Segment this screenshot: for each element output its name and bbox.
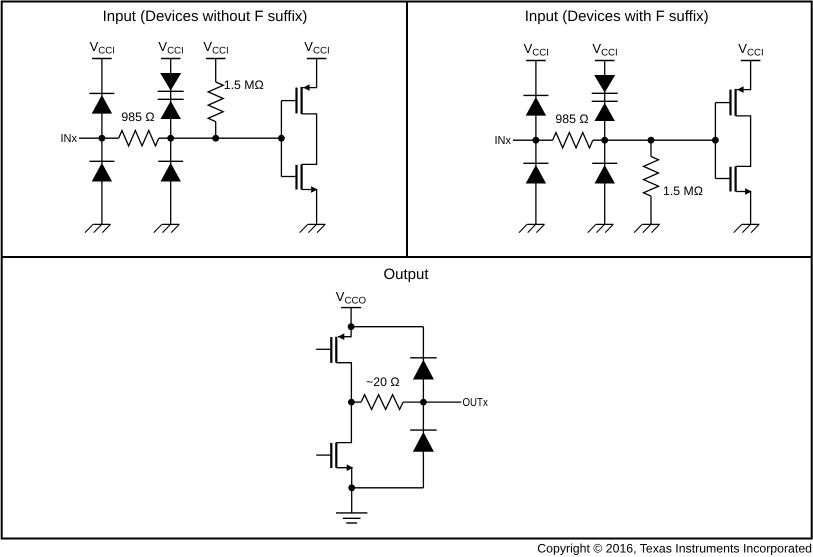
node F junction dot (driver node)	[348, 399, 355, 406]
transistor Q6 NMOS (output driver)	[331, 443, 353, 471]
wire node B to gate node	[159, 137, 282, 139]
panel divider vertical between input boxes	[406, 2, 408, 258]
power VCCI label 3	[203, 39, 228, 59]
svg-text:~20 Ω: ~20 Ω	[366, 375, 399, 389]
resistor ~20 ohm output series	[361, 395, 403, 410]
wire VCCI to PMOS source	[303, 59, 317, 88]
node B2 junction dot	[601, 137, 608, 144]
power VCCI label 3 panel 2	[738, 41, 763, 61]
ground symbol column 1	[85, 224, 111, 232]
wire gate stub to PMOS panel 2	[715, 102, 730, 104]
wire pulldown resistor to ground	[650, 196, 652, 224]
wire node G to OUTx pin	[423, 401, 461, 403]
wire PMOS drain to NMOS drain	[302, 114, 317, 164]
wire NMOS source to ground panel 2	[736, 192, 751, 225]
ground symbol transistor leg panel 1	[300, 224, 326, 232]
wire PMOS drain to node F	[336, 363, 351, 402]
node C junction dot	[212, 135, 219, 142]
wire gate bus vertical	[280, 101, 282, 177]
ground symbol panel 2 column 2	[588, 224, 614, 232]
ground symbol pull-down resistor	[634, 224, 660, 232]
node E junction dot (VCCO node)	[348, 323, 355, 330]
node G junction dot (OUTx node)	[420, 399, 427, 406]
transistor Q4 NMOS (input buffer panel 2)	[731, 166, 752, 194]
wire node H to clamp diode column	[352, 487, 424, 489]
wire gate stub to NMOS	[281, 176, 296, 178]
panel divider horizontal above Output box	[2, 256, 812, 258]
ground symbol transistor leg panel 2	[734, 224, 760, 232]
wire gate stub NMOS output	[316, 454, 331, 456]
power VCCO label	[336, 289, 367, 308]
wire VCCI rail down to ground (panel 2 column 1)	[535, 61, 537, 225]
ground symbol column 2	[154, 224, 180, 232]
node A2 junction dot	[533, 137, 540, 144]
resistor 1.5 Mohm pull-down	[644, 157, 659, 197]
wire PMOS drain to NMOS drain panel 2	[736, 116, 751, 166]
wire NMOS source to ground	[302, 190, 317, 225]
diode D5 (ground to node B, cathode up)	[158, 161, 183, 181]
diode D7 (ground to input node, cathode up)	[523, 163, 548, 183]
wire node B2 to gate node	[593, 139, 716, 141]
diode D4 (zener pair bottom: cathode-up diode)	[158, 99, 184, 119]
wire pullup resistor to node C	[215, 122, 217, 139]
wire VCCI rail down to ground (panel 2 column 2)	[604, 61, 606, 225]
svg-text:1.5 MΩ: 1.5 MΩ	[224, 78, 264, 92]
svg-text:Input (Devices with F suffix): Input (Devices with F suffix)	[525, 8, 709, 25]
wire NMOS source to node H	[336, 468, 351, 488]
node B junction dot	[167, 135, 174, 142]
diode D3 (zener pair top: cathode-down diode)	[158, 73, 184, 91]
wire INx to node A2	[513, 139, 553, 141]
resistor 985 ohm (series input resistor)	[119, 131, 159, 146]
wire resistor to node G	[403, 401, 423, 403]
diode D2 (ground to input node, cathode up)	[89, 161, 114, 181]
node A junction dot	[99, 135, 106, 142]
transistor Q1 PMOS (input buffer)	[297, 84, 310, 114]
wire VCCI rail 2 down to ground (column 2)	[170, 59, 172, 225]
wire gate stub to NMOS panel 2	[715, 178, 730, 180]
svg-text:1.5 MΩ: 1.5 MΩ	[663, 184, 703, 198]
diode D1 (VCCI to input node, cathode up)	[89, 93, 114, 113]
power VCCI label 2 panel 2	[592, 41, 617, 61]
diode D8 (zener pair top: cathode-down diode)	[592, 75, 618, 93]
svg-text:Copyright © 2016, Texas Instru: Copyright © 2016, Texas Instruments Inco…	[537, 542, 812, 556]
wire clamp diode column vertical	[422, 327, 424, 488]
resistor 985 ohm (series input resistor, panel 2)	[553, 133, 593, 148]
power VCCI label 2	[158, 39, 183, 59]
wire node E to clamp diode column	[351, 326, 423, 328]
node D junction dot (gate node)	[278, 135, 285, 142]
wire node F to output resistor	[351, 401, 361, 403]
svg-text:985 Ω: 985 Ω	[121, 110, 154, 124]
svg-text:OUTx: OUTx	[463, 397, 489, 409]
power VCCI label 1 panel 2	[524, 41, 549, 61]
diode D9 (zener pair bottom: cathode-up diode)	[592, 101, 618, 121]
node D2 junction dot (gate node panel 2)	[712, 137, 719, 144]
wire VCCO to node E	[350, 308, 352, 327]
node H junction dot (ground node)	[348, 484, 355, 491]
power VCCI label 4	[304, 39, 329, 59]
transistor Q2 NMOS (input buffer)	[297, 164, 318, 192]
diode D6 (VCCI to input node, cathode up)	[523, 95, 548, 115]
wire INx to node A	[79, 137, 119, 139]
node C2 junction dot (pull-down tap)	[648, 137, 655, 144]
ground symbol panel 2 column 1	[519, 224, 545, 232]
wire node C2 down to pulldown resistor	[650, 140, 652, 156]
wire VCCI to PMOS source panel 2	[737, 61, 751, 90]
wire NMOS drain to node F	[336, 402, 351, 443]
power VCCI label 1	[90, 39, 115, 59]
wire VCCI rail 1 down to ground (column 1)	[101, 59, 103, 225]
svg-text:Input (Devices without F suffi: Input (Devices without F suffix)	[103, 8, 308, 25]
diode D12 (ground to OUTx clamp, cathode up)	[410, 430, 437, 452]
ground symbol output (earth ground)	[336, 513, 367, 523]
wire node E to PMOS source	[338, 327, 351, 337]
transistor Q5 PMOS (output driver)	[331, 333, 344, 363]
svg-text:985 Ω: 985 Ω	[555, 112, 588, 126]
svg-text:INx: INx	[495, 135, 512, 147]
svg-text:Output: Output	[383, 266, 429, 283]
diode D10 (ground to node B2, cathode up)	[592, 163, 617, 183]
wire VCCI rail 3 to pullup resistor	[215, 59, 217, 83]
wire node H to earth ground	[351, 488, 353, 513]
svg-text:INx: INx	[61, 133, 78, 145]
wire gate stub PMOS output	[316, 348, 331, 350]
wire gate stub to PMOS	[281, 100, 296, 102]
wire gate bus vertical panel 2	[714, 103, 716, 179]
transistor Q3 PMOS (input buffer panel 2)	[731, 86, 744, 116]
diode D11 (OUTx to VCCO clamp, cathode up)	[410, 358, 437, 380]
resistor 1.5 Mohm pull-up	[208, 82, 223, 122]
